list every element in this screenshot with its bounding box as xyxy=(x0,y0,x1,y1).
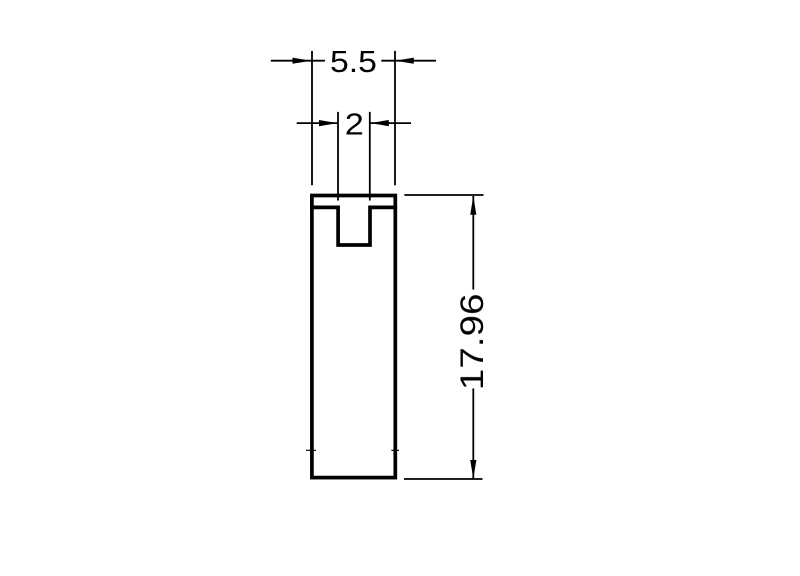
svg-text:5.5: 5.5 xyxy=(330,45,377,79)
svg-text:17.96: 17.96 xyxy=(454,293,490,390)
svg-text:2: 2 xyxy=(345,106,364,141)
